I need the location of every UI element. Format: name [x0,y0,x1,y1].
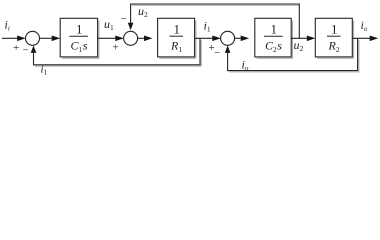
arrowhead into SJ2 [115,36,124,42]
svg-text:1: 1 [271,22,278,37]
block 1/C1s [60,18,97,57]
feedback path u2: branch up after C2s, left along top, down into SJ2 [131,4,300,38]
feedback path io: branch down after R2, left along bottom, up into SJ3 [228,38,358,70]
wire SJ3 to block C2s [234,37,243,39]
wire SJ1 to block C1s [39,37,54,39]
svg-text:1: 1 [174,22,181,37]
summing junction 3 [221,31,235,45]
block 1/R2 [315,18,352,57]
arrowhead up into SJ1 bottom [31,45,37,53]
svg-text:−: − [23,45,29,57]
arrowhead into block R1 [144,36,153,42]
shadow block 2 [159,21,196,59]
wire block C2s to block R2 with node u2 [291,37,309,39]
arrowhead up into SJ3 bottom [225,45,231,53]
summing junction 1 [26,31,40,45]
shadow block 4 [317,21,354,59]
arrowhead down into SJ2 top [128,23,134,31]
shadow block 1 [62,21,99,59]
wire block C1s to summing junction 2 [98,37,118,39]
shadow io feedback rail [229,40,359,72]
arrowhead into block C1s [52,36,61,42]
arrowhead into block R2 [307,36,316,42]
wire input to summing junction 1 [2,37,20,39]
arrowhead into SJ1 [17,36,26,42]
wire block R2 to output [352,37,372,39]
shadow block 3 [257,21,293,59]
arrowhead into block C2s [241,36,250,42]
arrowhead output io [370,36,379,42]
svg-text:−: − [121,13,127,25]
block 1/C2s [255,18,291,57]
svg-text:+: + [113,42,119,54]
svg-text:1: 1 [331,22,338,37]
shadow top rail [132,4,299,6]
arrowhead into SJ3 [212,36,221,42]
svg-text:1: 1 [76,22,83,37]
feedback path i1: branch down after R1, left along bottom, up into SJ1 [34,38,201,65]
summing junction 2 [124,31,138,45]
shadow i1 feedback rail [35,40,201,66]
svg-text:+: + [13,42,19,54]
wire SJ2 to block R1 [137,37,146,39]
svg-text:−: − [214,47,220,59]
block 1/R1 [158,18,195,57]
wire block R1 to summing junction 3 [195,37,215,39]
